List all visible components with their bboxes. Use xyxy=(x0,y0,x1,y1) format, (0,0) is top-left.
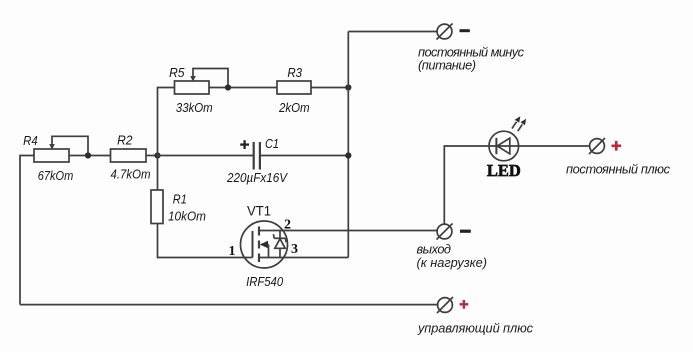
resistor R4 body xyxy=(34,149,69,162)
terminal DC minus xyxy=(437,24,452,39)
wire right vertical rail xyxy=(347,32,349,258)
svg-text:VT1: VT1 xyxy=(247,203,271,219)
wire R3 to right vertical xyxy=(311,87,348,89)
wire top to minus terminal xyxy=(348,31,437,33)
potentiometer R4 wiper xyxy=(52,136,88,155)
svg-text:1: 1 xyxy=(229,244,236,259)
wire R2 to mid node xyxy=(146,155,158,157)
terminal DC plus xyxy=(590,139,605,154)
svg-text:33kOm: 33kOm xyxy=(176,100,213,115)
wire R5 to R3 xyxy=(209,87,277,89)
wire R4 to R2 xyxy=(69,155,111,157)
transistor VT1 body diode xyxy=(279,231,281,240)
resistor R2 body xyxy=(111,149,147,162)
svg-text:R5: R5 xyxy=(169,65,185,80)
terminal output xyxy=(437,224,452,239)
svg-text:R1: R1 xyxy=(173,191,187,206)
resistor R1 body xyxy=(151,190,163,224)
svg-text:R3: R3 xyxy=(287,65,302,80)
svg-text:управляющий плюс: управляющий плюс xyxy=(417,321,534,336)
svg-text:R4: R4 xyxy=(23,133,38,148)
plus sign control plus xyxy=(460,300,469,309)
node junction R5 wiper xyxy=(225,84,231,90)
svg-text:67kOm: 67kOm xyxy=(38,168,74,183)
svg-text:R2: R2 xyxy=(117,132,133,147)
capacitor C1 polarity plus xyxy=(240,140,249,149)
wire bottom rail to control plus terminal xyxy=(20,304,438,306)
LED D1 triangle xyxy=(497,138,510,154)
minus sign output xyxy=(460,230,471,233)
wire R1 bottom to gate xyxy=(158,224,253,258)
wire mid vertical upper (node to R5 row) xyxy=(158,88,175,191)
resistor R3 body xyxy=(277,81,311,94)
svg-text:LED: LED xyxy=(487,161,521,180)
svg-text:IRF540: IRF540 xyxy=(246,274,284,289)
wire LED branch vertical xyxy=(444,146,489,225)
svg-text:постоянный плюс: постоянный плюс xyxy=(566,162,671,177)
wire LED to plus terminal xyxy=(519,145,590,147)
svg-text:4.7kOm: 4.7kOm xyxy=(111,167,151,182)
svg-text:10kOm: 10kOm xyxy=(168,209,206,224)
node junction C1 right xyxy=(345,152,351,158)
svg-text:C1: C1 xyxy=(265,136,279,151)
node junction R3 right xyxy=(345,84,351,90)
potentiometer R5 wiper xyxy=(193,69,228,88)
svg-text:(к нагрузке): (к нагрузке) xyxy=(417,255,488,270)
node junction R4 wiper xyxy=(85,152,91,158)
wire drain to output terminal xyxy=(259,230,438,232)
wire left vertical (R4 left to bottom rail) xyxy=(20,156,34,305)
transistor VT1 circle xyxy=(241,221,288,268)
LED D1 cathode bar xyxy=(495,138,497,154)
wire C1 row xyxy=(158,155,254,157)
svg-text:(питание): (питание) xyxy=(418,57,476,72)
svg-text:2: 2 xyxy=(284,218,291,233)
svg-text:3: 3 xyxy=(291,242,298,257)
LED D1 circle xyxy=(489,131,519,161)
wire source to right rail xyxy=(259,257,348,259)
resistor R5 body xyxy=(175,81,210,94)
svg-text:220µFx16V: 220µFx16V xyxy=(226,170,288,185)
plus sign DC plus xyxy=(612,141,622,151)
minus sign DC minus xyxy=(460,29,470,32)
capacitor C1 plates xyxy=(253,142,255,170)
node junction mid xyxy=(154,152,160,158)
terminal control plus xyxy=(438,298,453,313)
svg-text:2kOm: 2kOm xyxy=(278,100,310,115)
LED light arrows xyxy=(512,122,517,129)
transistor VT1 substrate arrow xyxy=(261,244,269,246)
transistor VT1 channel segments xyxy=(258,227,260,236)
transistor VT1 gate bar xyxy=(252,231,254,258)
